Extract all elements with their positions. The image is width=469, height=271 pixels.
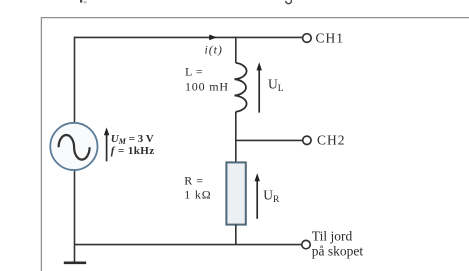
terminal CH1: [303, 34, 312, 43]
current arrow i(t) on top wire: [209, 35, 217, 41]
svg-text:CH1: CH1: [316, 30, 345, 45]
arrow U_R: [255, 173, 260, 219]
terminal CH2: [303, 136, 311, 144]
wire: left vertical upper (top corner to source): [74, 37, 76, 124]
svg-text:1 kΩ: 1 kΩ: [184, 187, 211, 201]
wire: middle branch upper (top wire to inductor): [235, 37, 237, 63]
label R = 1 kOhm: [184, 173, 211, 201]
label Til jord pa skopet: [312, 228, 364, 258]
svg-text:UL: UL: [268, 77, 284, 94]
svg-text:Til jord: Til jord: [312, 228, 353, 243]
wire: middle branch below resistor: [235, 225, 237, 245]
svg-text:CH2: CH2: [317, 133, 346, 148]
label L = 100 mH: [185, 65, 229, 94]
terminal ground (scope): [302, 240, 310, 248]
arrow U_L: [257, 62, 262, 112]
wire: top horizontal (node A to CH1): [75, 36, 303, 38]
cropped caption text above figure: [80, 0, 291, 4]
svg-text:100 mH: 100 mH: [185, 80, 229, 94]
wire: ground stub: [74, 245, 76, 262]
AC source U1: [50, 123, 97, 170]
wire: left vertical lower (source to bottom node): [74, 170, 76, 245]
svg-text:UR: UR: [263, 188, 280, 205]
wire: bottom horizontal (to ground terminal): [75, 244, 302, 246]
svg-text:R =: R =: [184, 173, 203, 187]
svg-text:på skopet: på skopet: [312, 244, 364, 259]
svg-text:L =: L =: [185, 65, 203, 79]
wire: middle branch between inductor and resistor: [235, 112, 237, 163]
inductor L: [235, 63, 247, 112]
svg-text:f = 1kHz: f = 1kHz: [111, 145, 155, 157]
ground: [64, 261, 86, 264]
resistor R: [226, 162, 245, 224]
arrow U_M (source voltage): [104, 127, 109, 161]
svg-text:i(t): i(t): [205, 42, 223, 56]
wire: CH2 stub: [236, 139, 303, 141]
